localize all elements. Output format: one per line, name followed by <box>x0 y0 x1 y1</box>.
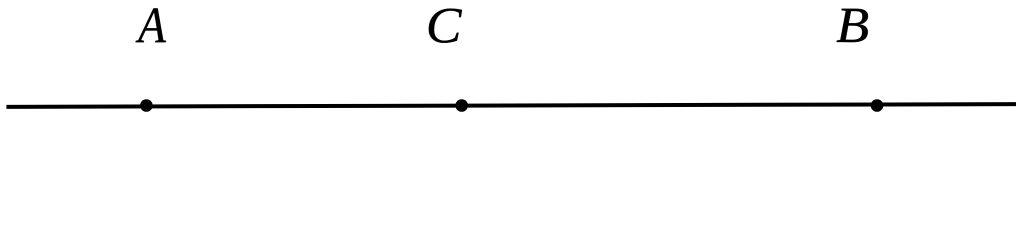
point B (dot) <box>871 99 884 112</box>
label B <box>837 9 868 42</box>
point C (dot) <box>455 99 468 112</box>
label C <box>429 9 462 43</box>
line through points A, C, B <box>6 104 1016 107</box>
point A (dot) <box>140 99 153 112</box>
label A <box>136 8 166 42</box>
